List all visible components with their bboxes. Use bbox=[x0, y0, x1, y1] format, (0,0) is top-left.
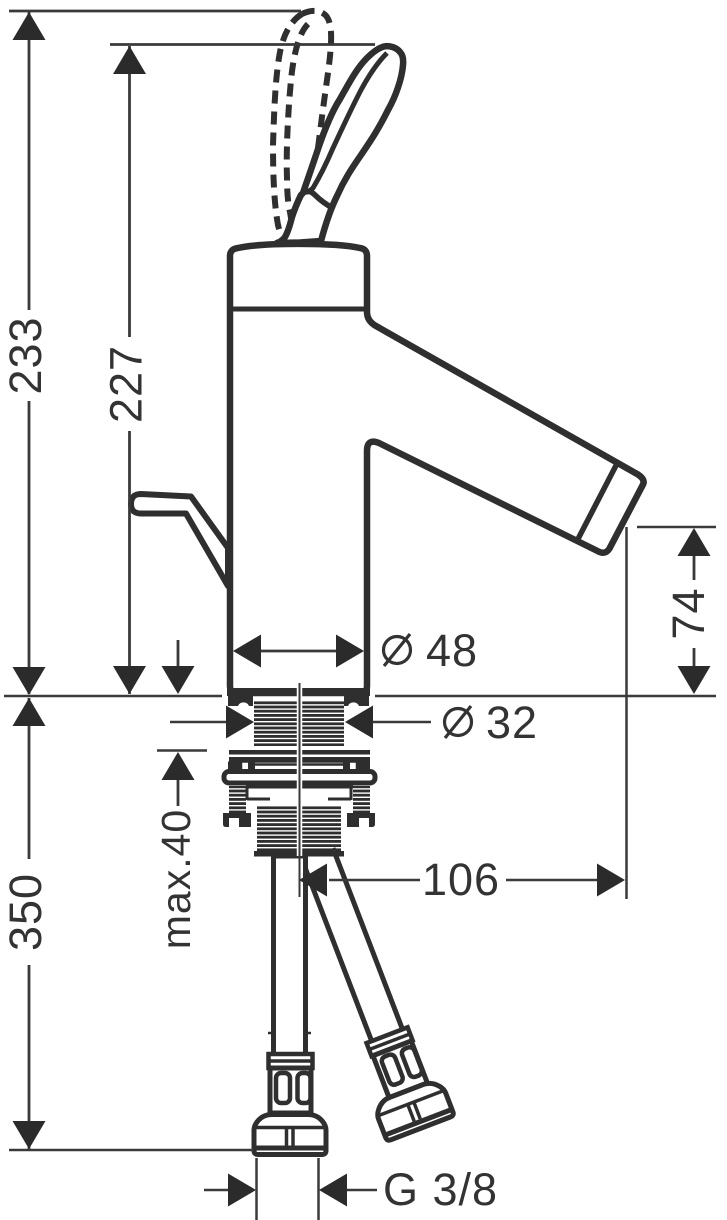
diameter symbol for 48 bbox=[384, 634, 411, 666]
svg-text:max.40: max.40 bbox=[153, 809, 199, 949]
right tab foot bbox=[347, 813, 375, 827]
G38 arrows bbox=[228, 1174, 256, 1207]
washer plate bars bbox=[229, 750, 370, 755]
svg-text:32: 32 bbox=[486, 697, 538, 748]
dia48 arrows bbox=[233, 635, 261, 668]
dim line 350 bbox=[28, 698, 31, 859]
centerline bbox=[299, 683, 301, 897]
dashed handle (raised position) bbox=[273, 11, 331, 243]
handle inner contour line bbox=[306, 53, 387, 193]
svg-text:48: 48 bbox=[426, 625, 478, 676]
G38 ext lines bbox=[255, 1158, 258, 1220]
svg-text:106: 106 bbox=[422, 854, 500, 905]
right hose connector bbox=[373, 1041, 427, 1098]
svg-text:350: 350 bbox=[0, 873, 51, 951]
dia32 leader right bbox=[373, 721, 431, 724]
227 arrows bbox=[113, 46, 146, 74]
dia32 arrows bbox=[226, 706, 254, 739]
central threaded column bbox=[257, 806, 341, 852]
left hose crimp ticks bbox=[268, 1032, 276, 1035]
mounting nut bbox=[224, 772, 375, 784]
dia48 dim line bbox=[259, 650, 338, 653]
max40 counter line bbox=[157, 749, 207, 752]
ext line top 227 bbox=[110, 43, 375, 46]
dashed handle outer left edge bbox=[273, 14, 302, 241]
bottom reference line bbox=[9, 1149, 253, 1152]
dashed handle foot bbox=[283, 240, 295, 243]
svg-text:G 3/8: G 3/8 bbox=[383, 1164, 498, 1215]
dashed handle inner foot bbox=[290, 212, 303, 218]
dashed handle outer right edge bbox=[302, 11, 331, 222]
left body-shank wedge bbox=[228, 696, 253, 706]
pop-up rod lever on left bbox=[131, 494, 228, 586]
233 arrows bbox=[13, 12, 46, 40]
left hose connector bbox=[270, 1068, 311, 1113]
left hose (vertical) bbox=[274, 856, 306, 1056]
right hose nut bbox=[373, 1078, 455, 1141]
350 arrows bbox=[13, 698, 46, 726]
right lower thread block bbox=[353, 786, 370, 814]
max40 upper stem bbox=[177, 640, 180, 667]
max40 lower stem bbox=[177, 780, 180, 806]
dim line 233 bbox=[28, 12, 31, 310]
74 ext line bbox=[637, 526, 716, 529]
left hose sleeve bbox=[269, 1054, 313, 1068]
left lower thread block bbox=[229, 786, 246, 814]
svg-text:74: 74 bbox=[663, 587, 714, 639]
solid handle lever bbox=[277, 46, 403, 243]
column bottom bar bbox=[254, 851, 344, 857]
G38 leader left bbox=[204, 1189, 228, 1192]
step section with notches bbox=[241, 762, 357, 772]
svg-text:227: 227 bbox=[101, 345, 152, 423]
74 arrows bbox=[678, 528, 711, 556]
aerator band bbox=[578, 466, 616, 540]
body bottom thick edge bbox=[227, 688, 370, 696]
body cap line bbox=[228, 307, 369, 312]
svg-text:233: 233 bbox=[0, 316, 51, 394]
handle front-face S curve bbox=[303, 191, 334, 209]
vertical ext line from spout bbox=[625, 527, 628, 899]
ext line top 233 bbox=[9, 10, 301, 13]
106 dim line bbox=[329, 879, 420, 882]
left hose nut bbox=[254, 1115, 326, 1155]
dia32 leader left bbox=[170, 721, 226, 724]
dim line 227 bbox=[128, 46, 131, 337]
diameter symbol for 32 bbox=[445, 706, 472, 738]
G38 leader right bbox=[347, 1189, 377, 1192]
threaded shank upper bbox=[254, 700, 344, 746]
left tab foot bbox=[223, 813, 251, 827]
dashed handle inner contour bbox=[287, 24, 308, 212]
right hose sleeve bbox=[367, 1027, 413, 1056]
right body-shank wedge bbox=[344, 696, 369, 706]
faucet body with spout (white filled outline) bbox=[230, 244, 644, 693]
74 dim line bbox=[693, 555, 696, 580]
mounting plane line right bbox=[375, 695, 716, 698]
right hose tube bbox=[302, 848, 403, 1043]
dimension texts bbox=[0, 316, 714, 1215]
mounting plane line left bbox=[4, 695, 222, 698]
centerline white break bbox=[297, 686, 303, 856]
106 arrows bbox=[299, 864, 327, 897]
lower shank outline bbox=[246, 786, 353, 789]
right hose (angled) bbox=[282, 842, 454, 1141]
max40 arrows bbox=[162, 666, 195, 694]
